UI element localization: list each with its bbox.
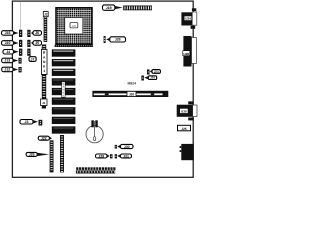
svg-text:J4: J4 bbox=[6, 50, 10, 54]
svg-text:J16: J16 bbox=[5, 31, 11, 35]
svg-text:J1: J1 bbox=[42, 101, 46, 105]
svg-text:J20: J20 bbox=[129, 93, 135, 97]
svg-text:J22: J22 bbox=[41, 137, 47, 141]
svg-text:J30: J30 bbox=[124, 145, 130, 149]
svg-text:U28: U28 bbox=[184, 52, 190, 56]
svg-text:M824: M824 bbox=[128, 82, 137, 86]
svg-text:J19: J19 bbox=[106, 6, 112, 10]
svg-text:J31: J31 bbox=[123, 154, 129, 158]
svg-text:1: 1 bbox=[43, 69, 45, 73]
svg-text:J25: J25 bbox=[181, 127, 187, 131]
svg-text:J24: J24 bbox=[150, 76, 155, 80]
svg-text:J7: J7 bbox=[31, 57, 35, 61]
svg-text:J13: J13 bbox=[4, 59, 10, 63]
svg-text:J26: J26 bbox=[29, 153, 35, 157]
svg-text:J12: J12 bbox=[4, 68, 10, 72]
svg-text:J28: J28 bbox=[115, 38, 121, 42]
svg-text:U6: U6 bbox=[72, 24, 76, 28]
svg-text:J29: J29 bbox=[98, 154, 104, 158]
svg-text:J2: J2 bbox=[44, 13, 48, 17]
svg-text:U30: U30 bbox=[181, 109, 187, 113]
svg-text:J6: J6 bbox=[35, 31, 39, 35]
svg-text:J3: J3 bbox=[25, 120, 29, 124]
svg-text:J23: J23 bbox=[154, 70, 159, 74]
svg-text:J5: J5 bbox=[35, 41, 39, 45]
svg-text:J10: J10 bbox=[5, 41, 11, 45]
svg-text:U34: U34 bbox=[185, 17, 191, 21]
